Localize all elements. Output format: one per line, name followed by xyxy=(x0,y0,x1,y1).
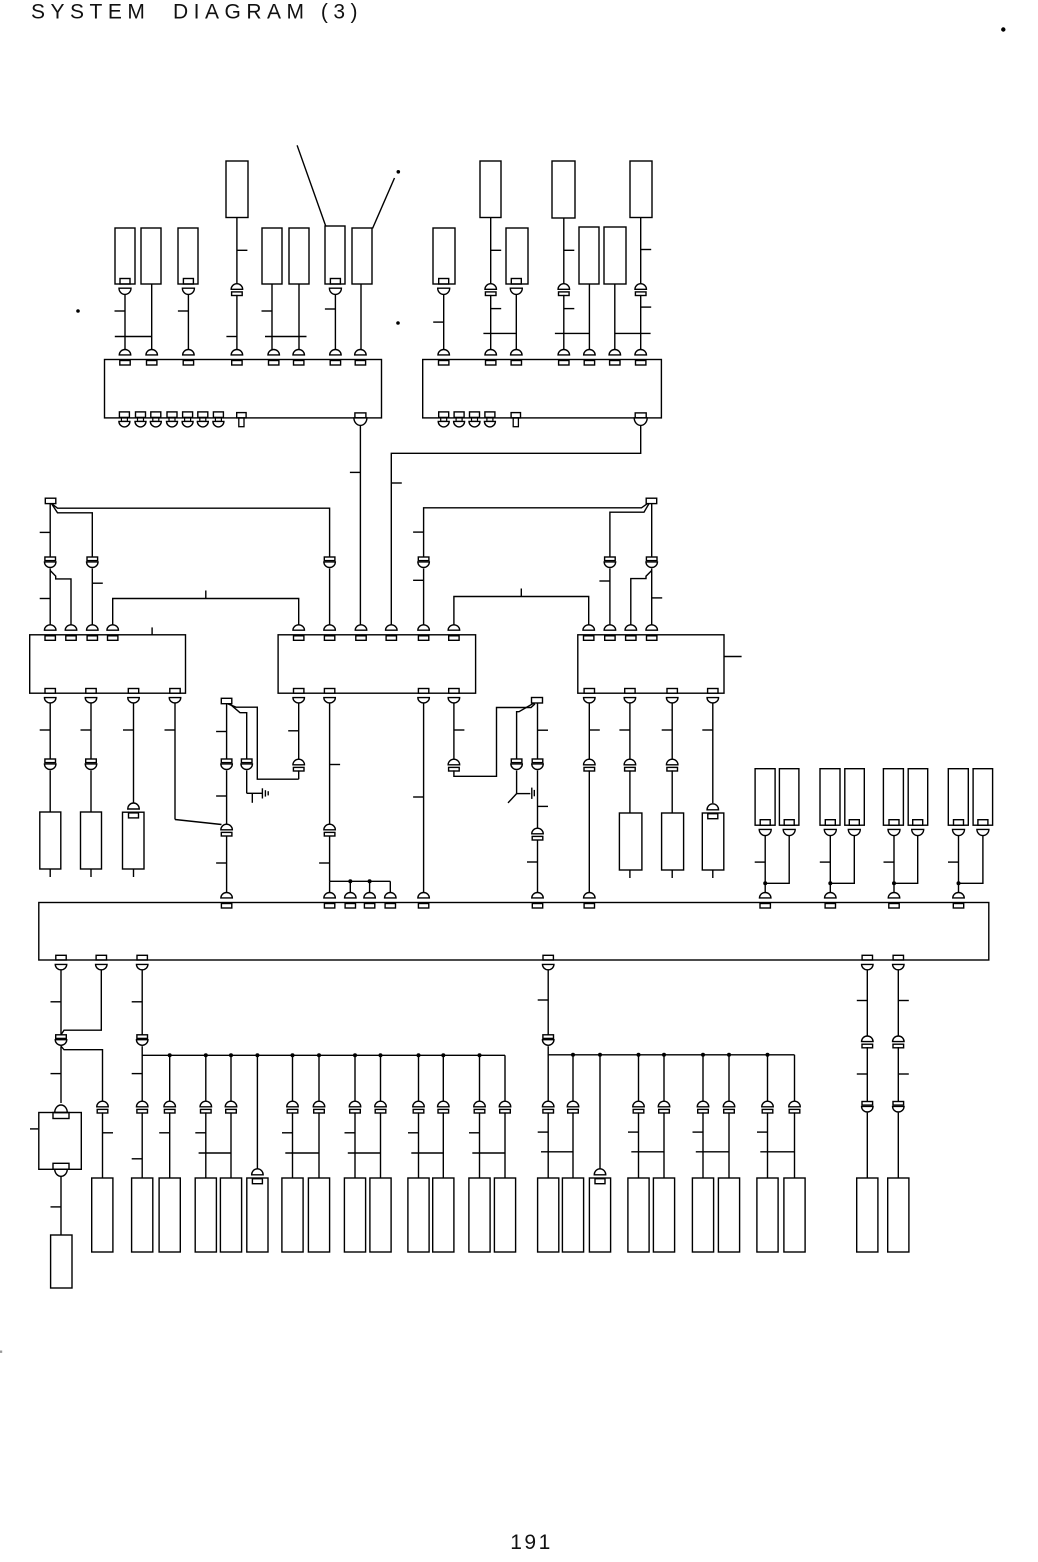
rail1 drop wire lower xyxy=(205,1112,207,1178)
rail1 drop wire xyxy=(418,1055,420,1101)
tick wire P3a xyxy=(884,861,895,863)
rail2 drop wire xyxy=(794,1055,796,1101)
wire to component M1 xyxy=(629,770,631,813)
tick bus pin3 xyxy=(132,1001,143,1003)
junction bottom pair right xyxy=(760,1151,794,1153)
wire box3 pin1 down xyxy=(49,703,51,759)
rail1 drop wire xyxy=(442,1055,444,1101)
component block M1 xyxy=(619,813,642,870)
branch wire F1 to box3 pin3 xyxy=(52,504,93,557)
tick on wire C4 xyxy=(262,310,273,312)
stub under M3 xyxy=(712,870,714,878)
box2 bottom terminal tab xyxy=(511,413,520,418)
box1 top connector 8 xyxy=(355,350,367,355)
component block R21 xyxy=(718,1178,739,1252)
wire box3 pin2 down xyxy=(90,703,92,759)
connector on top of component L3 xyxy=(128,803,140,809)
bus top connector 8 xyxy=(584,893,596,898)
component block C3 xyxy=(178,228,198,284)
wire to component L1 xyxy=(49,770,51,812)
bus pcb box xyxy=(39,903,989,961)
wire P3a to bus xyxy=(893,836,895,894)
tick on wire T4 lower xyxy=(641,306,652,308)
trunk wire FL down xyxy=(226,704,228,759)
component block P4a xyxy=(948,769,968,826)
wire to box4 pin5 xyxy=(423,569,425,628)
tick wire box3 pin1 xyxy=(40,729,51,731)
rail1 drop wire lower xyxy=(230,1112,232,1178)
tick on link wire 2 xyxy=(520,589,522,597)
box2 bottom stub connector 3 xyxy=(470,412,480,418)
box3 bottom connector 3 xyxy=(128,689,138,694)
drop to bus 3 xyxy=(369,881,371,893)
connector under C1 xyxy=(120,279,130,285)
connector under P2b xyxy=(849,820,859,826)
inline connector bus pin4 xyxy=(543,1035,554,1039)
box1 bottom terminal tab xyxy=(237,413,246,418)
component block R13 xyxy=(469,1178,490,1252)
inline connector bus pin1 xyxy=(56,1035,67,1039)
flag node F1 xyxy=(45,498,56,503)
inline connector box3 pin1 xyxy=(45,759,56,763)
wire box4 pin2 down xyxy=(329,703,331,824)
box1 top connector 1 xyxy=(119,350,131,355)
box4 top connector 2 xyxy=(324,625,336,630)
junction dot rail1 xyxy=(168,1053,172,1057)
wire bus pin3 down xyxy=(141,970,143,1035)
junction dot rail1 xyxy=(229,1053,233,1057)
wire FR mid xyxy=(537,770,539,828)
small box left stub xyxy=(30,1128,38,1130)
rail2 drop wire lower xyxy=(572,1112,574,1178)
component block R10 xyxy=(370,1178,391,1252)
component block R20 xyxy=(692,1178,713,1252)
tick bottom drop xyxy=(159,1132,170,1134)
box1 bottom stub connector 5 xyxy=(183,412,193,418)
box3 top connector 3 xyxy=(87,625,99,630)
inline connector box5 pin2 xyxy=(624,759,636,765)
inline connector on F1 box4 branch xyxy=(324,557,335,561)
junction bottom pair right xyxy=(696,1151,729,1153)
tick bottom drop right xyxy=(693,1131,704,1133)
junction dot rail2 xyxy=(701,1053,705,1057)
dot marker top right xyxy=(1001,27,1005,31)
inline connector rail1 drop xyxy=(136,1101,148,1107)
link wire box3 pin4 to box4 pin1 xyxy=(113,599,299,628)
connector under P1b xyxy=(784,820,794,826)
tick trunk FL lower xyxy=(216,862,227,864)
bus bottom connector 1 xyxy=(56,955,66,960)
wire bus pin3 to rail1 xyxy=(141,1046,143,1101)
wire F2 to box5 pin4 xyxy=(651,569,653,628)
tick wire R1 xyxy=(103,1132,114,1134)
box5 top connector 3 xyxy=(625,625,637,630)
branch wire F1 to box4 pin2 xyxy=(52,504,330,557)
box5 bottom connector 2 xyxy=(625,689,635,694)
component block R7 xyxy=(282,1178,303,1252)
tick trunk FL xyxy=(216,731,227,733)
box2 bottom stub connector 2 xyxy=(454,412,464,418)
wire F1 to box3 pin1 xyxy=(49,569,51,628)
inline connector on wire T4 xyxy=(635,284,647,290)
tick on wire box1-box4 xyxy=(350,471,361,473)
rail2 drop wire lower xyxy=(702,1112,704,1178)
tick bottom drop xyxy=(345,1132,356,1134)
rail1 drop wire lower xyxy=(442,1112,444,1178)
tick on wire T1 upper xyxy=(237,249,248,251)
tick wire box3 pin3 xyxy=(123,729,134,731)
inline connector rail2 drop xyxy=(658,1101,670,1107)
wire box5 pin1 down xyxy=(588,703,590,759)
junction bottom pair right xyxy=(631,1151,664,1153)
inline connector far right upper xyxy=(862,1036,874,1042)
bus top connector 1 xyxy=(221,893,233,898)
tick on wire T2 lower xyxy=(491,308,502,310)
wire box5 pin1 to bus xyxy=(588,770,590,893)
connector under C6 xyxy=(330,279,340,285)
rail1 drop wire xyxy=(380,1055,382,1101)
bus top connector 11 xyxy=(888,893,900,898)
rail1 drop wire lower xyxy=(169,1112,171,1178)
box1 bottom stub connector 4 xyxy=(167,412,177,418)
inline connector rail1 drop xyxy=(474,1101,486,1107)
wire to box5 pin2 xyxy=(609,569,611,628)
tick far right mid xyxy=(857,1073,868,1075)
box2 top connector 4 xyxy=(558,350,570,355)
junction dot P2 xyxy=(828,881,832,885)
connector under CC xyxy=(511,279,521,285)
inline connector rail1 drop xyxy=(349,1101,361,1107)
pcb box5 xyxy=(578,635,724,693)
wire FR lower xyxy=(537,840,539,893)
junction dot rail1 xyxy=(379,1053,383,1057)
box4 top connector 6 xyxy=(448,625,460,630)
component block T1 tall xyxy=(226,161,248,218)
wire box3 pin3 down xyxy=(133,703,135,803)
box3 top connector 4 xyxy=(107,625,119,630)
small box top connector xyxy=(55,1105,68,1112)
box1 bottom stub connector 3 xyxy=(151,412,161,418)
component block C4 xyxy=(262,228,282,284)
junction wire C1-C2 xyxy=(115,336,152,338)
junction bottom pair xyxy=(285,1152,319,1154)
box4 bottom connector 1 xyxy=(294,689,304,694)
tick wire P2a xyxy=(820,861,831,863)
inline connector box4 pin2 xyxy=(324,824,336,830)
tick wire box4 pin2 xyxy=(330,764,341,766)
junction dot rail b xyxy=(368,879,372,883)
box1 bottom stub connector 7 xyxy=(213,412,223,418)
rail1 drop wire xyxy=(230,1055,232,1101)
tick on wire C6 xyxy=(325,308,336,310)
tick wire box5 pin1 xyxy=(589,729,600,731)
bus top connector 7 xyxy=(532,893,544,898)
tick on wire T1 lower xyxy=(226,336,237,338)
component block C1 xyxy=(115,228,135,284)
box2 top connector 6 xyxy=(609,350,621,355)
svg-text:SYSTEM DIAGRAM (3): SYSTEM DIAGRAM (3) xyxy=(31,1,363,24)
wire T4 lower xyxy=(640,295,642,352)
inline connector rail1 drop xyxy=(413,1101,425,1107)
connector under P3b xyxy=(913,820,923,826)
inline connector rail2 drop xyxy=(789,1101,801,1107)
faint mark left edge xyxy=(0,1351,2,1353)
stub under L2 xyxy=(90,869,92,877)
box4 top connector 3 xyxy=(355,625,367,630)
box1 bottom stub connector 6 xyxy=(198,412,208,418)
tick wire box3 pin4 xyxy=(165,729,176,731)
wire bus pin2 jog xyxy=(61,970,101,1035)
rail1 drop wire lower xyxy=(318,1112,320,1178)
tick wire box4 pin1 xyxy=(288,730,299,732)
wire to box4 pin2 xyxy=(329,569,331,628)
wire box4 pin3 down xyxy=(423,703,425,894)
tick on wire box4 pin5 xyxy=(413,579,424,581)
box4 bottom connector 3 xyxy=(418,689,428,694)
wire bus far right down xyxy=(897,970,899,1036)
connector on top of component R6 xyxy=(252,1169,264,1175)
rail2 drop wire lower xyxy=(638,1112,640,1178)
component block R25 xyxy=(888,1178,909,1252)
junction dot rail1 xyxy=(478,1053,482,1057)
inline connector rail1 drop xyxy=(313,1101,325,1107)
tick bottom drop xyxy=(408,1132,419,1134)
component block L1 xyxy=(40,812,61,869)
component block R19 xyxy=(653,1178,674,1252)
component block P2a xyxy=(820,769,840,826)
junction dot rail1 xyxy=(417,1053,421,1057)
rail1 drop wire xyxy=(479,1055,481,1101)
wire P4a to bus xyxy=(958,836,960,894)
component block R2 xyxy=(132,1178,153,1252)
inline connector switch branch xyxy=(511,759,522,763)
junction wire CF-T4 xyxy=(615,332,651,334)
box2 bottom stub connector 4 xyxy=(485,412,495,418)
small box top notch xyxy=(53,1113,69,1119)
wire CC to box2 xyxy=(515,295,517,352)
tick on wire F1-box3 xyxy=(40,598,51,600)
component block R22 xyxy=(757,1178,778,1252)
trunk wire FL lower xyxy=(226,836,228,893)
junction dot rail1 xyxy=(255,1053,259,1057)
wire box4 pin4 jog to FR xyxy=(454,704,535,777)
component block P3b xyxy=(908,769,928,826)
bus top connector 9 xyxy=(759,893,771,898)
rail1 drop wire lower xyxy=(380,1112,382,1178)
wire box2 to box4 top xyxy=(391,426,640,628)
callout line d2 xyxy=(373,178,395,229)
wire P1b join xyxy=(765,836,789,883)
component block T3 tall xyxy=(552,161,575,218)
wire far right to component xyxy=(866,1113,868,1178)
branch wire F2 to box5 pin3 xyxy=(631,571,652,628)
wire box5 pin4 down xyxy=(712,703,714,803)
tick on wire box5 pin2 xyxy=(599,580,610,582)
inline connector box5 pin3 xyxy=(666,759,678,765)
tick wire small box down xyxy=(51,1206,62,1208)
rail2 drop wire lower xyxy=(663,1112,665,1178)
junction bottom pair xyxy=(348,1152,381,1154)
component block R14 xyxy=(494,1178,515,1252)
box1 bottom right connector xyxy=(355,413,366,418)
wire to component M2 xyxy=(671,770,673,813)
inline connector box5 pin1 xyxy=(584,759,596,765)
connector under P4a xyxy=(954,820,964,826)
wire FR down xyxy=(537,703,539,759)
component block L2 xyxy=(81,812,102,869)
junction bottom pair right xyxy=(541,1151,573,1153)
wire bus pin4 to rail2 xyxy=(547,1046,549,1101)
tick bus pin4 xyxy=(538,999,549,1001)
component block C2 xyxy=(141,228,161,284)
tick wire box4 pin3 xyxy=(413,796,424,798)
wire C7 to box1 xyxy=(360,284,362,352)
tick wire small box xyxy=(51,1073,62,1075)
tick on wire T3 upper xyxy=(564,249,575,251)
small box bottom connector xyxy=(55,1169,68,1176)
component block M2 xyxy=(662,813,684,870)
rail1 drop wire xyxy=(504,1055,506,1101)
box3 bottom connector 4 xyxy=(170,689,180,694)
rail2 drop wire lower xyxy=(767,1112,769,1178)
switch branch lower xyxy=(516,770,518,793)
inline connector box3 pin2 xyxy=(86,759,97,763)
junction wire T2-CC xyxy=(483,332,516,334)
box1 bottom stub connector 1 xyxy=(119,412,129,418)
tick wire box4 pin4 xyxy=(454,729,465,731)
box5 top connector 2 xyxy=(604,625,616,630)
box1 top connector 4 xyxy=(231,350,243,355)
inline connector rail2 drop xyxy=(723,1101,735,1107)
box3 bottom connector 2 xyxy=(86,689,96,694)
box1 top connector 6 xyxy=(293,350,305,355)
rail1 drop wire lower xyxy=(504,1112,506,1178)
box1 top connector 3 xyxy=(183,350,195,355)
bus top connector 2 xyxy=(324,893,336,898)
wire C1 to box1 xyxy=(124,295,126,352)
wire T3 upper xyxy=(563,218,565,284)
bus top connector 3 xyxy=(345,893,357,898)
inline connector on wire T2 xyxy=(485,284,497,290)
tick bottom drop right xyxy=(538,1131,549,1133)
junction dot P1 xyxy=(763,881,767,885)
tick wire FR xyxy=(538,729,549,731)
small box xyxy=(39,1113,82,1170)
box2 bottom stub connector 1 xyxy=(439,412,449,418)
component block C7 xyxy=(352,228,372,284)
component block CE xyxy=(579,227,599,284)
wire box5 pin2 down xyxy=(629,703,631,759)
connector under P4b xyxy=(978,820,988,826)
rail1 drop wire xyxy=(256,1055,258,1171)
inline connector rail1 drop xyxy=(287,1101,299,1107)
wire F1 down xyxy=(49,504,51,557)
connector under C3 xyxy=(183,279,193,285)
connector under CA xyxy=(439,279,449,285)
flag node FL xyxy=(221,698,232,703)
box1 bottom stub connector 2 xyxy=(136,412,146,418)
stub under M2 xyxy=(671,870,673,878)
flag node F2 xyxy=(646,498,657,503)
component block R4 xyxy=(195,1178,216,1252)
junction dot rail2 xyxy=(598,1053,602,1057)
wire CF to box2 xyxy=(614,284,616,352)
tick bottom drop right xyxy=(628,1131,639,1133)
junction bottom pair xyxy=(472,1152,505,1154)
bus top connector 10 xyxy=(825,893,837,898)
junction dot rail1 xyxy=(317,1053,321,1057)
wire T1 lower xyxy=(236,295,238,352)
rail1 drop wire lower xyxy=(354,1112,356,1178)
tick wire FR lower xyxy=(527,861,538,863)
wire to R1 xyxy=(102,1112,104,1178)
component block R24 xyxy=(857,1178,878,1252)
rail1 drop wire lower xyxy=(292,1112,294,1178)
box1 top connector 7 xyxy=(330,350,342,355)
branch jog to R1 column xyxy=(61,1046,103,1101)
component block L3 xyxy=(123,812,145,869)
bus top connector 6 xyxy=(418,893,430,898)
inline connector rail2 drop xyxy=(567,1101,579,1107)
tick bottom drop xyxy=(469,1132,480,1134)
component block B1 xyxy=(51,1235,72,1288)
tick wire P1a xyxy=(755,861,766,863)
bus bottom connector 5 xyxy=(862,955,872,960)
box5 bottom connector 1 xyxy=(584,689,594,694)
tick far right xyxy=(898,1000,909,1002)
junction dot rail1 xyxy=(441,1053,445,1057)
stub under M1 xyxy=(629,870,631,878)
drop to bus 1 xyxy=(329,881,331,893)
rail2 drop wire xyxy=(663,1055,665,1101)
box4 top connector 5 xyxy=(418,625,430,630)
inline connector rail2 drop xyxy=(697,1101,709,1107)
wire C3 to box1 xyxy=(187,295,189,352)
link wire box4 pin6 to box5 pin1 xyxy=(454,597,589,628)
junction dot P3 xyxy=(892,881,896,885)
tick on link wire xyxy=(205,591,207,599)
wire to small box xyxy=(60,1046,62,1103)
component block P1a xyxy=(755,769,775,826)
diagonal join to trunk xyxy=(175,820,222,825)
stub under L1 xyxy=(49,869,51,877)
wire small box down xyxy=(60,1176,62,1235)
branch wire F1 to box3 pin2 xyxy=(50,571,71,628)
component block T4 tall xyxy=(630,161,652,218)
box4 bottom connector 2 xyxy=(324,689,334,694)
rail2 drop wire lower xyxy=(794,1112,796,1178)
junction dot P4 xyxy=(957,881,961,885)
tick on wire box3 pin3 xyxy=(92,582,103,584)
inline connector rail1 drop xyxy=(225,1101,237,1107)
inline connector rail2 drop xyxy=(542,1101,554,1107)
drop to bus 4 xyxy=(389,881,391,893)
wire T2 upper xyxy=(490,218,492,284)
box3 top connector 1 xyxy=(44,625,56,630)
component block R16 xyxy=(562,1178,583,1252)
tick on F2 box4 branch xyxy=(413,531,424,533)
wire P1a to bus xyxy=(764,836,766,894)
inline connector on wire F1 down xyxy=(45,557,56,561)
inline connector on wire F2 down xyxy=(646,557,657,561)
stub under L3 xyxy=(133,869,135,877)
component block P2b xyxy=(845,769,865,826)
tick on wire C1 xyxy=(115,310,126,312)
wire to box3 pin3 xyxy=(91,569,93,628)
tick on wire T4 upper xyxy=(641,249,652,251)
flag node FR xyxy=(532,698,543,704)
rail2 drop wire xyxy=(572,1055,574,1101)
